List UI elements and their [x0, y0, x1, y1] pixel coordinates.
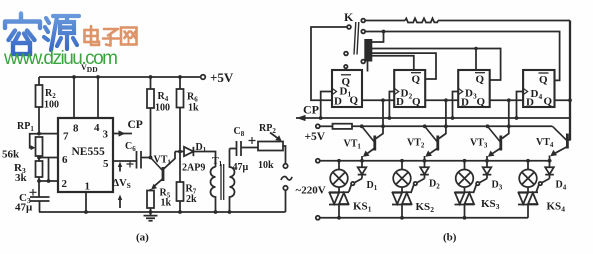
- triac KS3: [455, 192, 500, 218]
- diode D4 (b): [536, 161, 566, 192]
- potentiometer RP2 10k: [258, 123, 283, 171]
- transformer T1: [211, 149, 235, 214]
- wire bottom rail (b): [316, 216, 528, 220]
- svg-text:3: 3: [103, 129, 109, 141]
- resistor R2: [36, 77, 60, 134]
- svg-text:Q: Q: [539, 74, 548, 86]
- svg-text:CP: CP: [303, 103, 319, 117]
- svg-text:Q: Q: [477, 96, 486, 108]
- svg-text:Q: Q: [412, 96, 421, 108]
- resistor R6 1k: [177, 77, 200, 152]
- svg-text:+5V: +5V: [210, 70, 234, 85]
- wire clock stubs: [321, 92, 523, 119]
- svg-text:~220V: ~220V: [296, 185, 326, 197]
- svg-text:4: 4: [94, 122, 100, 134]
- flip-flop D3 box: [458, 70, 490, 109]
- wire Q1bar stub: [344, 65, 347, 70]
- capacitor C6: [125, 141, 151, 169]
- wire pin2 net: [39, 158, 58, 183]
- svg-text:8: 8: [73, 123, 79, 135]
- wire 220V top rail: [316, 159, 552, 163]
- svg-text:10k: 10k: [258, 160, 274, 171]
- wire switch to Q3bar: [372, 49, 501, 81]
- flip-flop D1 box: [332, 70, 362, 108]
- watermark logo 容: [5, 14, 40, 55]
- svg-text:1k: 1k: [161, 198, 172, 209]
- svg-text:47μ: 47μ: [15, 202, 33, 214]
- svg-text:D: D: [334, 96, 342, 108]
- svg-text:Q: Q: [544, 96, 553, 108]
- node collector wire: [175, 150, 184, 154]
- svg-text:2: 2: [62, 178, 68, 190]
- resistor R5 1k: [147, 188, 172, 214]
- svg-text:Q: Q: [476, 74, 485, 86]
- wire switch to Q4bar: [365, 30, 559, 81]
- svg-text:56k: 56k: [2, 149, 20, 161]
- flip-flop D2 box: [394, 70, 425, 108]
- svg-text:1k: 1k: [188, 103, 199, 114]
- wire +5V top rail: [39, 75, 205, 80]
- svg-text:www.dziuu.com: www.dziuu.com: [3, 48, 118, 69]
- resistor R7 2k: [177, 152, 198, 214]
- svg-text:+5V: +5V: [305, 131, 326, 143]
- flip-flop D4 box: [523, 70, 554, 109]
- wire feedback to D of FF1: [311, 27, 347, 100]
- diode D1 (b): [349, 161, 378, 192]
- capacitor C3 47u: [15, 179, 50, 213]
- resistor R3 3k: [14, 156, 43, 184]
- wire D1 to T1: [193, 152, 215, 168]
- wire pin5 net: [113, 160, 137, 162]
- wire pin6 net: [39, 157, 58, 159]
- triac KS2: [392, 192, 434, 218]
- node dVS arrows and label: [113, 162, 131, 209]
- node CP input line: [296, 103, 570, 122]
- lamp H1: [330, 161, 348, 193]
- svg-text:CP: CP: [128, 119, 143, 131]
- transistor VT1 (b): [344, 100, 384, 161]
- wire pin1 stub: [84, 192, 88, 214]
- op-amp U1 NE555 box: [58, 118, 113, 193]
- watermark logo 源: [44, 16, 79, 50]
- watermark text 电子网: [85, 26, 137, 46]
- svg-text:D: D: [526, 97, 534, 109]
- transistor VT2 (b): [407, 100, 446, 161]
- svg-text:6: 6: [62, 154, 68, 166]
- wire top net with inductor: [365, 18, 570, 140]
- svg-text:7: 7: [63, 131, 69, 143]
- wire pin3 CP output arrow: [113, 119, 143, 137]
- svg-text:2AP9: 2AP9: [182, 163, 205, 174]
- svg-text:NE555: NE555: [72, 146, 105, 158]
- lamp H4: [519, 161, 537, 193]
- svg-text:D: D: [396, 96, 404, 108]
- svg-text:100: 100: [155, 103, 170, 114]
- capacitor C8 47u: [230, 126, 259, 173]
- wire Q chain segments: [362, 98, 572, 102]
- wire pin4 stub: [97, 77, 99, 118]
- resistor R4 100: [147, 77, 170, 158]
- wire switch to Q2bar: [372, 53, 436, 79]
- lamp H3: [456, 161, 474, 193]
- transistor VT4 (b): [536, 126, 570, 161]
- svg-text:100: 100: [44, 100, 59, 111]
- triac KS1: [329, 192, 372, 218]
- diode D3 (b): [474, 161, 503, 192]
- wire pin7 net: [39, 133, 58, 135]
- transistor VT3 (b): [470, 100, 509, 161]
- svg-text:D: D: [461, 97, 469, 109]
- svg-text:3k: 3k: [15, 172, 28, 184]
- svg-text:(b): (b): [443, 232, 457, 244]
- svg-text:(a): (a): [136, 232, 149, 244]
- ground below R5: [144, 212, 158, 221]
- output terminals: [281, 146, 292, 212]
- lamp H2: [393, 161, 411, 193]
- switch K: [344, 10, 372, 72]
- diode D2 (b): [411, 161, 440, 192]
- svg-text:Q: Q: [412, 74, 421, 86]
- diode D1 2AP9: [182, 142, 207, 174]
- triac KS4: [518, 192, 565, 218]
- svg-text:5: 5: [103, 158, 109, 170]
- svg-text:1: 1: [85, 181, 91, 193]
- svg-text:K: K: [344, 10, 354, 24]
- node +5V input and resistor: [305, 124, 553, 143]
- wire bottom rail (a): [39, 211, 286, 213]
- svg-text:Q: Q: [350, 95, 359, 107]
- potentiometer RP1 56k: [2, 121, 43, 161]
- transistor VT1: [149, 152, 175, 191]
- wire pin8 stub: [73, 77, 75, 118]
- svg-text:47μ: 47μ: [233, 162, 249, 173]
- svg-text:2k: 2k: [186, 194, 197, 205]
